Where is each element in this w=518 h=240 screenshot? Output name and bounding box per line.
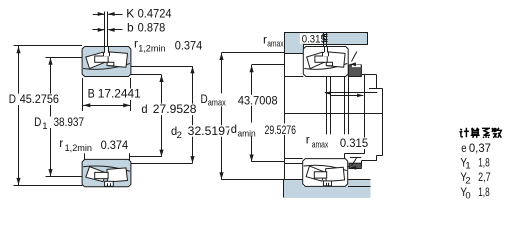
- svg-text:amax: amax: [312, 139, 329, 150]
- svg-text:amin: amin: [238, 128, 256, 139]
- svg-text:1,2min: 1,2min: [138, 43, 165, 54]
- svg-text:0.315: 0.315: [340, 136, 369, 150]
- svg-text:2,7: 2,7: [478, 170, 491, 184]
- svg-text:45.2756: 45.2756: [20, 92, 60, 106]
- svg-text:b: b: [127, 20, 134, 34]
- svg-text:1,8: 1,8: [478, 185, 490, 199]
- svg-text:B: B: [88, 87, 95, 101]
- svg-text:0.374: 0.374: [101, 138, 129, 152]
- svg-text:0.374: 0.374: [175, 38, 203, 52]
- svg-text:d: d: [231, 122, 237, 136]
- svg-text:1,2min: 1,2min: [65, 143, 92, 154]
- svg-text:r: r: [59, 136, 63, 150]
- svg-text:0.878: 0.878: [138, 20, 166, 34]
- svg-text:38.937: 38.937: [54, 115, 85, 129]
- svg-text:2: 2: [177, 130, 182, 141]
- svg-text:29.5276: 29.5276: [265, 123, 297, 137]
- svg-text:D: D: [34, 115, 41, 129]
- svg-text:17.2441: 17.2441: [98, 87, 141, 101]
- svg-text:amax: amax: [267, 38, 284, 49]
- svg-text:32.5197: 32.5197: [188, 124, 232, 138]
- svg-text:43.7008: 43.7008: [238, 93, 278, 107]
- svg-text:D: D: [9, 92, 16, 106]
- svg-text:1,8: 1,8: [478, 155, 490, 169]
- svg-text:d: d: [141, 102, 147, 116]
- svg-text:amax: amax: [208, 98, 226, 109]
- svg-text:0.315: 0.315: [302, 33, 326, 45]
- svg-text:r: r: [306, 133, 310, 147]
- svg-text:0,37: 0,37: [469, 141, 491, 155]
- svg-text:0: 0: [465, 190, 470, 201]
- svg-text:27.9528: 27.9528: [153, 102, 197, 116]
- svg-text:e: e: [461, 141, 467, 155]
- svg-text:1: 1: [42, 121, 47, 132]
- svg-text:0.4724: 0.4724: [138, 7, 172, 21]
- svg-text:K: K: [126, 7, 134, 21]
